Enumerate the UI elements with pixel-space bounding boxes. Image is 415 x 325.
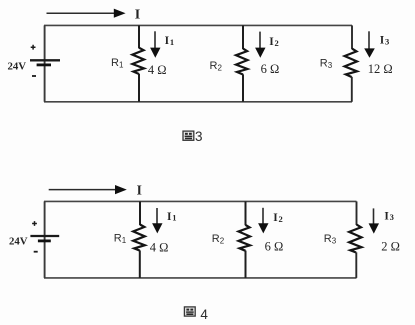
wire: right edge bottom stub (figure 3) bbox=[351, 77, 353, 102]
svg-text:I1: I1 bbox=[165, 35, 175, 47]
resistor R3 zigzag (figure 3) bbox=[345, 49, 357, 77]
battery 24V negative plate (figure 4) bbox=[38, 239, 51, 242]
current arrow I line (figure 3) bbox=[47, 12, 116, 14]
wire: R2 branch top stub (figure 4) bbox=[245, 201, 247, 225]
current arrow I head (figure 4) bbox=[115, 185, 127, 194]
wire: right edge top stub / R3 branch (figure 4) bbox=[356, 201, 358, 225]
svg-text:R2: R2 bbox=[212, 233, 225, 246]
current arrow I1 head (figure 3) bbox=[150, 48, 160, 58]
current arrow I1 line (figure 3) bbox=[154, 31, 156, 49]
wire: R1 branch top stub (figure 4) bbox=[139, 201, 141, 225]
svg-text:I3: I3 bbox=[380, 35, 390, 47]
svg-text:2 Ω: 2 Ω bbox=[381, 240, 400, 254]
current arrow I2 head (figure 4) bbox=[258, 223, 268, 233]
wire: bottom bus of figure 3 bbox=[44, 101, 352, 103]
wire: R2 branch top stub (figure 3) bbox=[242, 25, 244, 49]
current arrow I1 head (figure 4) bbox=[152, 223, 162, 233]
wire: top bus of figure 3 bbox=[44, 24, 352, 26]
label - (battery figure 4) bbox=[34, 251, 38, 253]
resistor R1 zigzag (figure 3) bbox=[132, 48, 144, 74]
svg-text:4 Ω: 4 Ω bbox=[150, 240, 169, 254]
svg-text:24V: 24V bbox=[8, 61, 27, 73]
current arrow I2 line (figure 3) bbox=[259, 32, 261, 49]
label - (battery figure 3) bbox=[32, 75, 36, 77]
wire: left edge battery branch of figure 4 bbox=[44, 201, 46, 278]
svg-text:I: I bbox=[137, 182, 142, 197]
battery 24V negative plate (figure 3) bbox=[37, 64, 51, 67]
label + (battery figure 4) bbox=[32, 221, 37, 226]
caption glyph tu (figure 4) bbox=[184, 307, 195, 316]
svg-text:I3: I3 bbox=[384, 210, 394, 222]
wire: top bus of figure 4 bbox=[44, 200, 357, 202]
current arrow I3 head (figure 4) bbox=[369, 223, 379, 233]
current arrow I1 line (figure 4) bbox=[156, 208, 158, 225]
wire: left edge battery branch of figure 3 bbox=[44, 25, 46, 101]
resistor R2 zigzag (figure 3) bbox=[236, 49, 248, 75]
svg-text:6 Ω: 6 Ω bbox=[265, 240, 284, 254]
current arrow I head (figure 3) bbox=[114, 9, 126, 18]
svg-text:6 Ω: 6 Ω bbox=[261, 62, 280, 76]
wire: R1 branch bottom stub (figure 3) bbox=[138, 74, 140, 102]
wire: bottom bus of figure 4 bbox=[44, 277, 357, 279]
svg-text:I: I bbox=[135, 7, 140, 22]
battery 24V positive plate (figure 3) bbox=[30, 59, 60, 61]
svg-text:4: 4 bbox=[200, 307, 208, 322]
svg-text:4 Ω: 4 Ω bbox=[148, 63, 167, 77]
resistor R1 zigzag (figure 4) bbox=[133, 225, 145, 251]
wire: R2 branch bottom stub (figure 4) bbox=[245, 251, 247, 278]
current arrow I3 line (figure 4) bbox=[373, 208, 375, 225]
wire: right edge top stub / R3 branch (figure 3) bbox=[351, 25, 353, 49]
svg-text:3: 3 bbox=[195, 129, 203, 144]
svg-text:R1: R1 bbox=[111, 57, 124, 70]
current arrow I3 line (figure 3) bbox=[368, 31, 370, 49]
svg-text:R2: R2 bbox=[210, 60, 223, 73]
label + (battery figure 3) bbox=[31, 45, 36, 50]
wire: R2 branch bottom stub (figure 3) bbox=[242, 74, 244, 102]
svg-text:R1: R1 bbox=[114, 233, 127, 246]
svg-text:R3: R3 bbox=[320, 57, 333, 70]
current arrow I2 line (figure 4) bbox=[262, 208, 264, 225]
wire: right edge bottom stub (figure 4) bbox=[355, 252, 357, 278]
current arrow I2 head (figure 3) bbox=[255, 48, 265, 58]
resistor R3 zigzag (figure 4) bbox=[349, 225, 361, 253]
current arrow I line (figure 4) bbox=[49, 189, 116, 191]
svg-text:24V: 24V bbox=[9, 236, 28, 248]
battery 24V positive plate (figure 4) bbox=[30, 235, 59, 237]
caption glyph tu (figure 3) bbox=[183, 131, 194, 140]
svg-text:I1: I1 bbox=[167, 211, 177, 223]
svg-text:12 Ω: 12 Ω bbox=[368, 62, 393, 76]
wire: R1 branch top stub (figure 3) bbox=[138, 25, 140, 48]
resistor R2 zigzag (figure 4) bbox=[239, 225, 251, 251]
svg-text:I2: I2 bbox=[273, 212, 283, 224]
wire: R1 branch bottom stub (figure 4) bbox=[139, 250, 141, 278]
current arrow I3 head (figure 3) bbox=[364, 48, 375, 57]
svg-text:R3: R3 bbox=[324, 233, 337, 246]
svg-text:I2: I2 bbox=[269, 36, 279, 48]
